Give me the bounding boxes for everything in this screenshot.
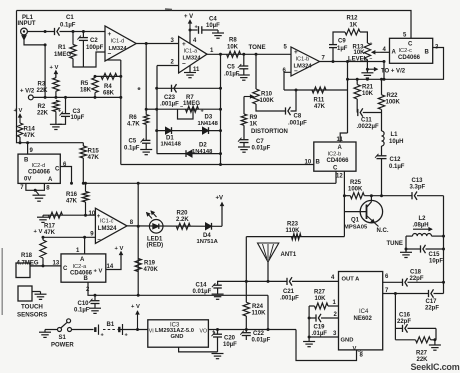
svg-text:10K: 10K — [227, 44, 239, 50]
svg-text:DISTORTION: DISTORTION — [251, 129, 288, 135]
svg-text:R21: R21 — [362, 85, 374, 91]
svg-text:VO: VO — [200, 329, 208, 335]
svg-text:A: A — [48, 177, 53, 183]
svg-text:47K: 47K — [88, 154, 100, 161]
svg-text:(RED): (RED) — [147, 242, 164, 248]
svg-text:C7: C7 — [256, 139, 264, 145]
svg-text:0.01µF: 0.01µF — [193, 289, 212, 295]
svg-text:IC2-d: IC2-d — [32, 163, 46, 169]
svg-text:CD4066: CD4066 — [327, 158, 350, 164]
svg-text:+ V: + V — [34, 229, 43, 235]
svg-text:1MEG: 1MEG — [183, 101, 200, 107]
svg-text:R2: R2 — [38, 104, 46, 110]
svg-text:10K: 10K — [354, 50, 366, 56]
svg-text:22K: 22K — [37, 110, 49, 116]
svg-text:0.1µF: 0.1µF — [74, 308, 90, 314]
svg-text:TOUCH: TOUCH — [21, 304, 43, 311]
svg-text:47K: 47K — [66, 199, 78, 205]
svg-text:NE602: NE602 — [354, 316, 373, 322]
svg-text:110K: 110K — [286, 228, 301, 234]
svg-text:+V: +V — [216, 196, 224, 202]
svg-text:0.1µF: 0.1µF — [124, 145, 140, 151]
svg-text:.01µF: .01µF — [312, 331, 328, 337]
svg-text:INPUT: INPUT — [18, 21, 36, 27]
svg-text:470K: 470K — [144, 267, 159, 273]
svg-text:−: − — [182, 61, 186, 68]
svg-text:+ V: + V — [131, 304, 140, 310]
svg-text:C5: C5 — [227, 64, 235, 70]
svg-text:1MEG: 1MEG — [54, 52, 71, 58]
svg-text:100K: 100K — [386, 100, 401, 106]
svg-text:C2: C2 — [90, 38, 98, 44]
svg-text:0.1µF: 0.1µF — [60, 23, 76, 29]
svg-text:10µF: 10µF — [206, 23, 220, 29]
svg-text:R12: R12 — [347, 16, 359, 22]
svg-text:C13: C13 — [412, 178, 424, 184]
svg-text:IC1-a: IC1-a — [184, 49, 199, 55]
svg-text:+ V/2: + V/2 — [20, 88, 35, 94]
svg-text:VI: VI — [149, 329, 154, 335]
svg-text:1N4148: 1N4148 — [198, 121, 219, 127]
svg-text:100pF: 100pF — [86, 45, 104, 51]
svg-text:R10: R10 — [261, 92, 273, 98]
svg-text:68K: 68K — [103, 91, 115, 97]
svg-text:R5: R5 — [81, 81, 89, 87]
svg-text:10: 10 — [89, 211, 96, 217]
svg-text:22K: 22K — [37, 88, 49, 94]
svg-text:+: + — [212, 330, 215, 336]
svg-text:1N4148: 1N4148 — [192, 149, 213, 155]
svg-text:1K: 1K — [350, 23, 358, 29]
svg-text:+ V: + V — [115, 246, 124, 252]
svg-text:B: B — [316, 159, 321, 165]
svg-text:+: + — [370, 42, 373, 48]
svg-text:B: B — [24, 157, 29, 163]
svg-text:D1: D1 — [166, 135, 174, 141]
svg-text:C4: C4 — [209, 16, 217, 22]
svg-text:L1: L1 — [391, 132, 399, 138]
svg-text:SeekIC.com: SeekIC.com — [411, 362, 460, 372]
svg-text:10K: 10K — [362, 91, 374, 97]
svg-text:D3: D3 — [205, 115, 213, 121]
svg-text:4.7K: 4.7K — [127, 122, 140, 128]
svg-text:IC4: IC4 — [359, 309, 369, 315]
svg-text:N.C.: N.C. — [377, 228, 389, 234]
svg-text:Q1: Q1 — [351, 218, 360, 224]
svg-text:R27: R27 — [314, 289, 326, 295]
svg-text:C9: C9 — [338, 39, 346, 45]
svg-text:IC1-b: IC1-b — [296, 57, 310, 63]
svg-text:TONE: TONE — [249, 44, 266, 51]
svg-text:1N751A: 1N751A — [197, 239, 219, 245]
svg-text:A: A — [392, 50, 397, 56]
svg-text:.08µH: .08µH — [413, 222, 429, 228]
svg-text:R3: R3 — [38, 81, 46, 87]
svg-text:.001µF: .001µF — [280, 296, 299, 302]
svg-text:C16: C16 — [399, 312, 411, 318]
svg-text:TUNE: TUNE — [387, 241, 403, 247]
svg-text:R22: R22 — [387, 93, 399, 99]
svg-text:C12: C12 — [390, 157, 402, 163]
svg-text:+ V: + V — [50, 65, 59, 71]
svg-text:R25: R25 — [350, 180, 362, 186]
svg-text:R11: R11 — [314, 97, 325, 103]
svg-text:10: 10 — [305, 159, 312, 165]
svg-text:.001µF: .001µF — [288, 120, 307, 126]
svg-text:LM324: LM324 — [98, 226, 117, 232]
svg-text:47K: 47K — [314, 104, 326, 110]
svg-text:LEVEL: LEVEL — [348, 56, 368, 62]
svg-text:CD4066: CD4066 — [28, 169, 51, 175]
svg-text:0V: 0V — [24, 176, 31, 182]
svg-text:3.3pF: 3.3pF — [410, 184, 426, 190]
svg-text:.0022µF: .0022µF — [357, 124, 379, 130]
svg-text:C: C — [408, 42, 413, 48]
svg-text:110K: 110K — [252, 311, 267, 317]
svg-text:C: C — [333, 166, 338, 172]
svg-text:C: C — [55, 167, 60, 173]
svg-text:C20: C20 — [224, 336, 236, 342]
svg-text:C22: C22 — [253, 331, 265, 337]
svg-text:−: − — [97, 237, 101, 243]
svg-text:47K: 47K — [24, 132, 36, 139]
svg-text:B: B — [84, 276, 89, 282]
svg-text:+ V: + V — [14, 108, 23, 114]
svg-text:+: + — [108, 31, 112, 38]
svg-text:13: 13 — [53, 261, 60, 267]
svg-text:R23: R23 — [287, 222, 299, 228]
svg-text:R16: R16 — [66, 192, 78, 198]
svg-text:+: + — [125, 333, 128, 339]
svg-text:10µF: 10µF — [223, 342, 237, 348]
svg-text:+: + — [294, 49, 298, 56]
svg-text:+: + — [182, 41, 186, 48]
svg-text:S1: S1 — [59, 335, 67, 341]
svg-text:12: 12 — [336, 173, 343, 179]
svg-text:+ V: + V — [184, 14, 193, 20]
svg-text:.01µF: .01µF — [224, 72, 240, 78]
svg-text:18K: 18K — [80, 88, 92, 94]
svg-text:2.2K: 2.2K — [176, 217, 189, 223]
svg-text:LM324: LM324 — [183, 56, 202, 62]
svg-text:SENSORS: SENSORS — [17, 312, 47, 319]
svg-text:MPSA05: MPSA05 — [344, 224, 368, 230]
svg-text:47K: 47K — [44, 230, 56, 236]
svg-text:R6: R6 — [129, 115, 137, 121]
svg-text:22pF: 22pF — [410, 276, 424, 282]
svg-text:10K: 10K — [315, 296, 327, 302]
svg-text:L2: L2 — [419, 216, 427, 222]
svg-text:LM324: LM324 — [109, 46, 128, 52]
svg-text:IC1-c: IC1-c — [100, 218, 114, 224]
svg-text:A: A — [80, 257, 85, 263]
svg-text:C8: C8 — [294, 114, 302, 120]
svg-text:R8: R8 — [229, 38, 237, 44]
svg-text:R24: R24 — [252, 304, 264, 310]
svg-text:R27: R27 — [416, 350, 428, 356]
svg-text:ANT1: ANT1 — [281, 252, 297, 258]
svg-text:R7: R7 — [186, 95, 194, 101]
svg-text:0.1µF: 0.1µF — [389, 164, 405, 170]
svg-text:D2: D2 — [199, 143, 207, 149]
svg-text:10pF: 10pF — [429, 259, 443, 265]
svg-text:+ V: + V — [94, 268, 103, 274]
svg-text:0.01µF: 0.01µF — [252, 145, 271, 151]
svg-text:IC2-a: IC2-a — [73, 264, 88, 270]
svg-text:1N4148: 1N4148 — [161, 142, 182, 148]
svg-text:22pF: 22pF — [425, 306, 439, 312]
svg-text:C17: C17 — [426, 299, 438, 305]
svg-text:1µF: 1µF — [337, 46, 348, 52]
svg-text:C18: C18 — [410, 269, 422, 275]
svg-text:C: C — [63, 266, 68, 272]
svg-text:R1: R1 — [58, 45, 66, 51]
svg-text:IC2-b: IC2-b — [328, 151, 342, 157]
svg-text:0.01µF: 0.01µF — [252, 338, 271, 344]
svg-text:R20: R20 — [177, 210, 189, 216]
svg-text:C1: C1 — [66, 15, 74, 21]
svg-text:10µH: 10µH — [389, 139, 403, 145]
svg-text:+: + — [101, 333, 104, 339]
svg-text:R4: R4 — [104, 84, 112, 90]
svg-text:LM324: LM324 — [294, 64, 313, 70]
svg-text:.001µF: .001µF — [160, 102, 179, 108]
svg-text:R17: R17 — [44, 224, 56, 230]
svg-text:−: − — [370, 56, 373, 62]
svg-text:CD4066: CD4066 — [70, 271, 93, 277]
svg-text:IC1-d: IC1-d — [111, 39, 125, 45]
svg-text:C3: C3 — [73, 109, 81, 115]
svg-text:C14: C14 — [196, 283, 208, 289]
svg-text:R19: R19 — [144, 261, 156, 267]
svg-text:B: B — [425, 50, 430, 56]
svg-text:C19: C19 — [314, 324, 326, 330]
svg-text:+: + — [97, 214, 101, 220]
svg-text:GND: GND — [341, 337, 354, 343]
svg-text:+: + — [195, 25, 198, 31]
svg-text:C5: C5 — [129, 139, 137, 145]
svg-text:OUT A: OUT A — [342, 277, 361, 283]
svg-text:22pF: 22pF — [397, 319, 411, 325]
svg-text:100K: 100K — [260, 98, 275, 104]
svg-text:R9: R9 — [250, 115, 258, 121]
svg-text:IC2-c: IC2-c — [399, 48, 413, 54]
svg-text:10µF: 10µF — [71, 115, 85, 121]
svg-text:C23: C23 — [164, 95, 176, 101]
svg-text:C10: C10 — [78, 301, 90, 307]
svg-text:100K: 100K — [348, 187, 363, 193]
svg-text:POWER: POWER — [51, 343, 74, 349]
svg-text:R18: R18 — [21, 253, 33, 259]
svg-text:B1: B1 — [107, 322, 115, 328]
svg-text:A: A — [338, 145, 343, 151]
svg-text:C11: C11 — [361, 117, 372, 123]
svg-text:TO + V/2: TO + V/2 — [381, 68, 406, 74]
svg-text:C21: C21 — [283, 289, 295, 295]
svg-text:+: + — [58, 108, 61, 114]
svg-text:GND: GND — [171, 334, 184, 340]
svg-text:+: + — [201, 109, 204, 115]
svg-text:1K: 1K — [250, 122, 258, 128]
svg-text:CD4066: CD4066 — [398, 55, 421, 61]
svg-text:C15: C15 — [429, 252, 441, 258]
